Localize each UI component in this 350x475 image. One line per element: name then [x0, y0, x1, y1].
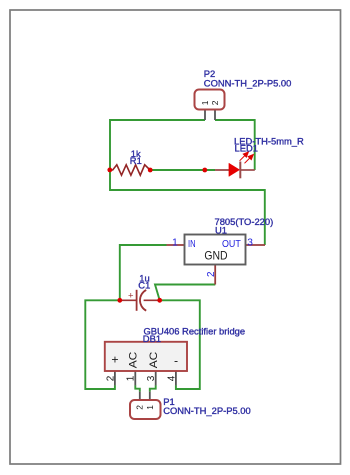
svg-text:4: 4: [166, 375, 177, 381]
junction dot at R1 left: [107, 168, 112, 173]
junction dot C1 right: [157, 298, 162, 303]
wire U1 GND to C1-: [155, 285, 215, 301]
junction dot at R1 right: [148, 168, 153, 173]
wire left rail C1+ to DB1 pin2: [85, 300, 120, 389]
P1 pin 2: [139, 392, 141, 401]
LED1 anode lead: [215, 169, 229, 171]
P2 body: [195, 90, 225, 110]
LED1 cathode lead: [240, 169, 255, 171]
wire LED cathode up to P2.2: [215, 120, 255, 170]
P1 pin 1: [149, 392, 151, 401]
DB1 pin 3: [155, 371, 157, 385]
U1 pin 2 lead: [214, 265, 216, 285]
DB1 pin 2: [114, 371, 116, 385]
junction dot at LED anode wire end: [202, 168, 207, 173]
svg-text:-: -: [174, 354, 178, 368]
C1 positive lead: [120, 299, 136, 301]
LED1 triangle: [229, 163, 240, 176]
LED LED1: [215, 152, 255, 178]
wire junction down to U1 OUT: [110, 170, 265, 245]
regulator U1: [167, 235, 266, 285]
svg-text:CONN-TH_2P-P5.00: CONN-TH_2P-P5.00: [204, 78, 292, 89]
wire DB1 pin1 to P1 pin2: [135, 385, 140, 391]
capacitor C1: [120, 290, 160, 311]
svg-text:+: +: [111, 353, 118, 367]
svg-text:+: +: [128, 291, 134, 302]
svg-text:2: 2: [135, 405, 145, 410]
svg-text:DB1: DB1: [143, 333, 161, 344]
wire R1 to LED anode: [150, 169, 215, 171]
svg-text:R1: R1: [130, 155, 142, 166]
svg-text:2: 2: [105, 375, 116, 381]
wire right rail C1- to DB1 pin4: [160, 300, 200, 389]
svg-text:1: 1: [172, 237, 178, 248]
svg-text:AC: AC: [127, 351, 139, 368]
U1 pin 3 lead: [246, 244, 266, 246]
svg-text:2: 2: [206, 272, 217, 278]
C1 negative plate (curved): [140, 290, 146, 311]
svg-text:GND: GND: [204, 249, 227, 263]
DB1 pin 1: [134, 371, 136, 385]
svg-text:C1: C1: [138, 279, 150, 290]
svg-text:IN: IN: [188, 239, 196, 250]
bridge rectifier DB1: [105, 342, 187, 386]
connector P2: [195, 90, 225, 121]
P2 pin 1: [204, 109, 206, 121]
DB1 pin 4: [175, 371, 177, 385]
resistor R1: [110, 165, 150, 175]
svg-text:1: 1: [126, 375, 137, 381]
U1 body: [185, 235, 246, 265]
svg-text:CONN-TH_2P-P5.00: CONN-TH_2P-P5.00: [163, 405, 251, 416]
svg-text:LED1: LED1: [235, 143, 258, 154]
U1 pin 1 lead: [167, 244, 185, 246]
junction dot C1 left: [117, 298, 122, 303]
svg-text:AC: AC: [148, 351, 160, 368]
wire U1 IN to C1+: [120, 245, 167, 300]
C1 positive plate: [136, 290, 138, 311]
connector P1: [130, 392, 161, 419]
LED1 emission arrows: [240, 152, 254, 163]
wire DB1 pin3 to P1 pin1: [150, 385, 156, 391]
DB1 body: [105, 342, 187, 371]
wire P2.1 to R1 junction: [110, 120, 205, 170]
svg-text:2: 2: [210, 100, 220, 105]
LED1 cathode bar: [239, 162, 241, 179]
svg-text:1: 1: [200, 100, 210, 105]
svg-text:3: 3: [247, 237, 253, 248]
svg-text:1: 1: [145, 405, 155, 410]
svg-text:U1: U1: [215, 225, 227, 236]
P2 pin 2: [214, 109, 216, 121]
svg-text:3: 3: [146, 375, 157, 381]
C1 negative lead: [144, 299, 160, 301]
P1 body: [130, 400, 161, 419]
